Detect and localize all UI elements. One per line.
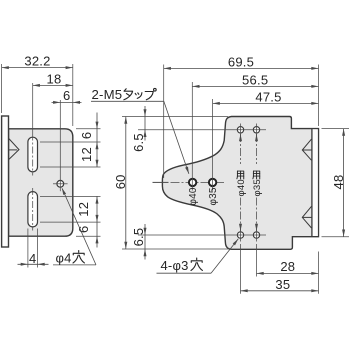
svg-text:φ40: φ40 (188, 187, 199, 205)
long centerline through upper holes (also 6.5 extension) (138, 129, 266, 131)
extension lines for right-side stack dims (76, 128, 101, 130)
column line phi40-yo (with arrows) (240, 124, 242, 137)
dimension 69.5 (164, 67, 319, 69)
dimension 56.5 (192, 85, 318, 87)
svg-text:48: 48 (331, 175, 346, 190)
long centerline through lower holes (also 6.5 extension) (138, 234, 266, 236)
horizontal centerline through M5 holes (153, 181, 169, 183)
M5 tapped hole (phi35 PCD) (209, 179, 216, 186)
svg-text:6: 6 (79, 132, 94, 139)
right view: flange thickness band (white) (313, 129, 318, 236)
dimension 6.5 top (144, 106, 146, 141)
upper mounting holes (phi3) (237, 127, 243, 133)
extension lines: slot 2 edges down to 4-dim (27, 229, 29, 268)
leader phi4 hole (62, 188, 96, 265)
dimension 48 (343, 129, 345, 237)
svg-text:2-M5: 2-M5 (92, 87, 123, 102)
svg-text:6.5: 6.5 (131, 228, 146, 247)
dimension line 12/6 (lower stack) (96, 196, 98, 247)
svg-text:6: 6 (76, 225, 91, 232)
dimension 35 (241, 290, 319, 292)
right view: bend mark triangle upper (302, 139, 311, 160)
dimension 47.5 (213, 102, 319, 104)
right view: bend mark triangle lower (302, 206, 311, 228)
svg-text:28: 28 (280, 259, 295, 274)
leader 4-phi3 underline (157, 272, 212, 274)
dimension 28 (257, 272, 319, 274)
svg-text:60: 60 (113, 174, 128, 189)
extension lines: lower holes down / right edge down (256, 244, 258, 277)
hole phi4 (57, 180, 64, 187)
dimension 4 (slot width) (18, 263, 49, 265)
svg-text:69.5: 69.5 (228, 54, 254, 69)
right view: bend line (inner edge of flange thickness) (311, 129, 313, 237)
svg-text:6: 6 (63, 88, 70, 103)
svg-text:12: 12 (76, 202, 91, 217)
extension line: slot 1 center up to 18-dim (32, 83, 34, 134)
hole phi4 crosshair + extension up to 6-dim (53, 183, 68, 185)
lower mounting holes (phi3) (237, 232, 243, 238)
leader 4-phi3 diagonal (211, 239, 238, 273)
extension line: nose up (69.5) (163, 65, 165, 179)
svg-text:32.2: 32.2 (24, 54, 50, 69)
dimension 32.2 (2, 67, 73, 69)
extension line: right view bottom edge to left (60) (122, 248, 229, 250)
slot 1 centerline (32, 134, 34, 176)
extension line: flange left edge up (32.2) (1, 64, 3, 113)
vertical crosshair phi35 hole + extension up (47.5) (212, 99, 214, 191)
dimension line 6/12 (upper stack) (96, 113, 98, 168)
leader 2-M5 tap diagonal (164, 101, 189, 174)
extension line: right view top edge to left (60) (122, 116, 228, 118)
extension line: right edge up (69.5/56.5/47.5) (318, 65, 320, 127)
svg-text:12: 12 (79, 147, 94, 162)
extension line: plate right edge up (32.2/18/6) (72, 64, 74, 126)
vertical crosshair phi40 hole + extension up (56.5) (191, 82, 193, 191)
svg-text:18: 18 (47, 71, 62, 86)
svg-text:47.5: 47.5 (255, 89, 281, 104)
extension lines for 48 (322, 128, 350, 130)
dimension 18 (33, 84, 73, 86)
svg-text:φ40: φ40 (236, 179, 247, 196)
slot 2 centerline (32, 188, 34, 231)
dimension 60 (125, 117, 127, 250)
left view: flange strip (edge view of large leg) (2, 116, 9, 247)
svg-text:56.5: 56.5 (242, 73, 268, 88)
left view: bend mark triangle (9, 139, 19, 160)
svg-text:6.5: 6.5 (131, 133, 146, 152)
slot 2 (lower obround) (28, 192, 38, 227)
dimension 6.5 bottom (144, 224, 146, 260)
dimension 6 (hole to edge) (52, 101, 82, 103)
svg-text:φ35: φ35 (208, 187, 219, 205)
svg-text:4: 4 (29, 251, 36, 266)
svg-text:φ4: φ4 (56, 250, 72, 265)
svg-text:4-φ3: 4-φ3 (161, 258, 189, 273)
column line phi35-yo (with arrows) (256, 124, 258, 137)
svg-text:φ35: φ35 (252, 179, 263, 196)
leader 2-M5 tap underline (91, 100, 164, 102)
slot 1 (upper obround) (28, 137, 38, 172)
right view: bracket plate outline (face of large leg) (162, 117, 318, 250)
left view: bracket plate (face of small leg) (9, 129, 73, 236)
M5 tapped hole (phi40 PCD) (189, 179, 196, 186)
svg-text:35: 35 (275, 277, 290, 292)
